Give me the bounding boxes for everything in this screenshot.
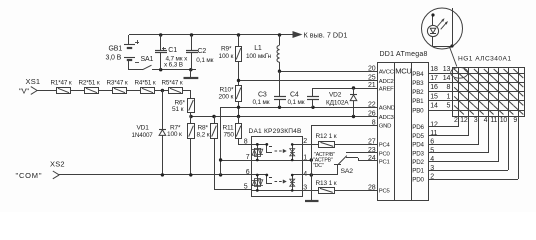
svg-text:PC1: PC1 [379, 159, 390, 165]
svg-text:26: 26 [368, 111, 376, 118]
label C1 [164, 47, 188, 68]
label DA1 pin 5 [244, 184, 248, 191]
wire ground drop [311, 125, 313, 201]
node rail-C1 junction [159, 33, 162, 36]
svg-text:20: 20 [368, 65, 376, 72]
svg-text:C3: C3 [258, 92, 267, 99]
resistor R8 [211, 116, 253, 190]
svg-text:200 к: 200 к [219, 94, 234, 101]
node C3-AGND [278, 106, 281, 109]
wire PB2 to HG1 row pin 8 [429, 84, 453, 91]
svg-text:9: 9 [513, 117, 517, 124]
svg-text:5: 5 [447, 102, 451, 109]
label HG1 column pin 10 [500, 117, 508, 124]
resistor R4 [141, 88, 155, 94]
svg-text:8: 8 [447, 84, 451, 91]
svg-text:GND: GND [379, 124, 391, 130]
svg-text:12: 12 [430, 121, 438, 128]
svg-text:27: 27 [368, 139, 376, 146]
svg-text:14: 14 [443, 75, 451, 82]
label L1 [246, 45, 272, 60]
resistor R5 [169, 88, 183, 94]
svg-text:К выв. 7 DD1: К выв. 7 DD1 [304, 31, 348, 40]
svg-text:7: 7 [246, 154, 250, 161]
label DA1 pin 6 [246, 169, 250, 176]
resistor R11 [236, 116, 253, 145]
node R10-AGND [237, 106, 240, 109]
label DD1 pin 6 PD4 [412, 139, 434, 149]
label DD1 pin 4 PD2 [412, 156, 434, 166]
svg-text:R10*: R10* [220, 87, 234, 94]
resistor R3 [113, 88, 127, 94]
label DD1 pin 21 AREF [368, 82, 394, 92]
svg-text:PD1: PD1 [412, 168, 424, 175]
node pin1 tie [310, 158, 313, 161]
node R9-R10-ADC2 [237, 79, 240, 82]
label R4 [135, 79, 156, 86]
label HG1 column pin 4 [484, 117, 488, 124]
label DD1 pin 16 PB2 [412, 84, 438, 96]
svg-text:DA1 КР293КП4В: DA1 КР293КП4В [249, 128, 303, 135]
label R9 [219, 46, 234, 61]
arrow to pin 7 DD1 [293, 31, 347, 40]
label DD1 pin 5 PD3 [412, 147, 434, 157]
label DD1 pin 28 PC5 [368, 185, 390, 195]
wire ADC3 pin26 [191, 116, 378, 118]
label R2 [79, 79, 100, 86]
label DD1 [380, 51, 428, 58]
opto channel 1 (pins 8-7/2-1) [252, 143, 302, 161]
node VD1-COM [161, 173, 164, 176]
svg-text:2: 2 [454, 117, 458, 124]
node C4-AGND [311, 106, 314, 109]
label DD1 pin 27 PC4 [368, 139, 390, 149]
label XS2 [16, 160, 65, 181]
svg-text:R2*51 к: R2*51 к [79, 79, 100, 86]
resistor R7 [188, 116, 195, 175]
node VD2-AREF [352, 86, 355, 89]
wire PB0 to HG1 row pin 5 [429, 102, 453, 110]
label R6 [172, 99, 186, 113]
svg-text:PD5: PD5 [412, 133, 424, 140]
svg-text:PC5: PC5 [379, 189, 391, 195]
label HG1 [458, 56, 512, 63]
wire HG1 column 4 to PD3 [429, 116, 489, 153]
label DD1 pin 24 PC1 [368, 155, 390, 165]
svg-text:PB0: PB0 [412, 107, 424, 114]
capacitor C4 [307, 88, 319, 107]
label DD1 pin 8 GND [372, 120, 391, 130]
label DD1 pin 22 AGND [368, 102, 395, 112]
resistor R2 [85, 88, 99, 94]
svg-text:0,1 мк: 0,1 мк [288, 99, 305, 106]
wire HG1 column 3 to PD4 [429, 116, 479, 145]
svg-text:SA1: SA1 [141, 56, 154, 63]
svg-text:SA2: SA2 [341, 168, 354, 175]
label GB1 [106, 45, 123, 61]
svg-text:GB1: GB1 [109, 45, 123, 52]
label R3 [107, 79, 128, 86]
wire AGND pin22 [221, 107, 378, 109]
svg-text:3,0 В: 3,0 В [106, 55, 122, 62]
svg-text:12: 12 [460, 117, 468, 124]
label XS1 [19, 77, 40, 96]
svg-text:22: 22 [368, 102, 376, 109]
svg-text:R13 1 к: R13 1 к [316, 180, 337, 187]
node R8-ADC3 [212, 115, 215, 118]
connector XS2 [53, 171, 59, 179]
svg-text:10: 10 [500, 117, 508, 124]
label R8 [197, 125, 210, 139]
label DA1 pin 4 [303, 171, 307, 178]
svg-text:8,2 к: 8,2 к [197, 131, 210, 138]
label R7 [167, 124, 182, 138]
label HG1 column pin 12 [460, 117, 468, 124]
svg-text:8: 8 [372, 120, 376, 127]
label DA1 pin 7 [246, 154, 250, 161]
resistor R1 [57, 88, 71, 94]
node rail-C2 junction [190, 33, 193, 36]
svg-text:4: 4 [430, 156, 434, 163]
node rail-L1 junction [278, 33, 281, 36]
svg-text:PD6: PD6 [412, 124, 424, 131]
label DD1 pin 20 AVCC [368, 65, 395, 75]
wire HG1 column 2 to PD5 [429, 116, 469, 136]
svg-text:PB3: PB3 [412, 80, 424, 87]
svg-text:14: 14 [430, 102, 438, 109]
display HG1 outline [453, 68, 525, 117]
label SA1 [141, 56, 154, 63]
label MCU [395, 67, 411, 76]
svg-text:25: 25 [368, 75, 376, 82]
svg-text:C4: C4 [290, 92, 299, 99]
node AGND-COM [219, 173, 222, 176]
svg-text:100 мкГн: 100 мкГн [246, 53, 272, 60]
diode VD1 [159, 90, 166, 175]
svg-text:"COM": "COM" [16, 171, 43, 180]
svg-text:24: 24 [368, 155, 376, 162]
label DD1 pin 18 PB4 [412, 66, 438, 78]
connector XS1 [31, 87, 37, 95]
label DD1 pin 17 PB3 [412, 75, 438, 87]
label C2 [196, 48, 213, 64]
label R12 [316, 133, 337, 140]
svg-text:3: 3 [474, 117, 478, 124]
wire DA1 pin4 to SA2 [302, 174, 338, 176]
svg-text:R12 1 к: R12 1 к [316, 133, 337, 140]
capacitor C1 [155, 35, 167, 70]
wire DA1 pin7 [221, 160, 252, 162]
label DA1 pin 3 [303, 185, 307, 192]
svg-text:PB2: PB2 [412, 89, 424, 96]
svg-text:AVCC: AVCC [379, 70, 395, 76]
resistor R9 [236, 35, 242, 80]
label SA2 [341, 168, 354, 175]
wire PB3 to HG1 row pin 14 [429, 75, 453, 83]
wire DA1 pin1 [302, 160, 311, 162]
node VD2-ADC3 [352, 115, 355, 118]
svg-text:28: 28 [368, 185, 376, 192]
label DA1 pin 8 [244, 139, 248, 146]
wire PB1 to HG1 row pin 1 [429, 93, 453, 100]
wire DA1 pin2 to R12 [302, 144, 319, 146]
svg-text:1N4007: 1N4007 [132, 132, 154, 139]
svg-text:PD4: PD4 [412, 142, 424, 149]
label DA1 pin 2 [303, 138, 307, 145]
svg-text:17: 17 [430, 75, 438, 82]
svg-text:18: 18 [430, 66, 438, 73]
svg-text:VD1: VD1 [137, 125, 150, 132]
svg-text:0,1 мк: 0,1 мк [253, 99, 270, 106]
display HG1 grid lines [453, 68, 524, 116]
svg-text:750: 750 [224, 131, 235, 138]
wire AREF pin21 [313, 88, 378, 90]
svg-text:11: 11 [490, 117, 497, 124]
diode VD2 [350, 88, 357, 116]
wire +3V top rail [129, 34, 293, 36]
label DD1 pin 2 PD0 [412, 174, 434, 184]
label DD1 pin 26 ADC3 [368, 111, 394, 121]
label DD1 pin 23 PC0 [368, 147, 390, 157]
svg-text:5: 5 [430, 147, 434, 154]
svg-text:C2: C2 [198, 48, 207, 55]
ground symbol DA1 [305, 200, 319, 202]
label VD2 [326, 92, 349, 107]
resistor R6 [188, 98, 195, 116]
svg-text:R3*47 к: R3*47 к [107, 79, 128, 86]
svg-text:1: 1 [447, 93, 451, 100]
resistor R10 [236, 80, 242, 116]
svg-text:ADC3: ADC3 [379, 115, 395, 121]
node R7-COM [189, 173, 192, 176]
wire R13 to PC5 pin28 [334, 190, 378, 192]
wire PB4 to HG1 row pin 13 [429, 66, 453, 74]
ground symbol under C2 [184, 70, 199, 78]
svg-text:PB1: PB1 [412, 98, 424, 105]
wire HG1 column 5 to PD2 [429, 116, 499, 162]
label C3 [253, 92, 270, 107]
svg-text:PC4: PC4 [379, 143, 391, 149]
svg-text:PD3: PD3 [412, 150, 424, 157]
svg-text:х 6,3 В: х 6,3 В [164, 61, 183, 68]
wire gnd C1-C2 [161, 69, 196, 71]
wire GND pin8 [311, 125, 378, 127]
label HG1 column pin 9 [513, 117, 517, 124]
label HG1 column pin 3 [474, 117, 478, 124]
svg-text:"V": "V" [19, 87, 29, 96]
switch SA1 [129, 65, 161, 70]
wire HG1 column 7 to PD0 [429, 116, 519, 180]
svg-text:4: 4 [484, 117, 488, 124]
wire HG1 column 1 to PD6 [429, 116, 459, 127]
battery GB1 [124, 35, 139, 70]
svg-text:R5*47 к: R5*47 к [162, 79, 183, 86]
svg-text:8: 8 [244, 139, 248, 146]
svg-text:MCU: MCU [395, 67, 411, 76]
svg-text:PC0: PC0 [379, 151, 391, 157]
svg-text:100 к: 100 к [219, 53, 234, 60]
svg-text:R4*51 к: R4*51 к [135, 79, 156, 86]
svg-text:XS2: XS2 [50, 160, 65, 169]
node VD1-chain [161, 89, 164, 92]
label DA1 pin 1 [303, 155, 307, 162]
label DA1 [249, 128, 303, 135]
svg-text:C1: C1 [168, 47, 177, 54]
MCU DD1 box [378, 63, 429, 202]
svg-text:15: 15 [430, 93, 438, 100]
capacitor C3 [274, 71, 286, 107]
label DD1 pin 25 ADC2 [368, 75, 394, 85]
wire HG1 column 6 to PD1 [429, 116, 509, 171]
svg-text:PB4: PB4 [412, 71, 424, 78]
resistor R13 [319, 188, 335, 194]
label DD1 pin 14 PB0 [412, 102, 438, 114]
svg-text:VD2: VD2 [329, 92, 342, 99]
wire V chain [37, 90, 191, 98]
wire COM rail [59, 174, 252, 176]
svg-text:R1*47 к: R1*47 к [51, 79, 72, 86]
label DD1 pin 3 PD1 [412, 165, 434, 175]
wire AVCC pin20 [280, 71, 378, 73]
svg-text:L1: L1 [254, 45, 262, 52]
svg-text:AREF: AREF [379, 86, 394, 92]
svg-text:100 к: 100 к [167, 131, 182, 138]
label HG1 column pin 2 [454, 117, 458, 124]
svg-text:XS1: XS1 [26, 77, 41, 86]
label R5 [162, 79, 183, 86]
node pin7-AGND [219, 158, 222, 161]
svg-text:16: 16 [430, 84, 438, 91]
inductor L1 [277, 35, 280, 71]
node L1-C3-AVCC [278, 70, 281, 73]
label R13 [316, 180, 337, 187]
wire ADC2 pin25 [238, 80, 378, 82]
capacitor C2 [186, 35, 198, 70]
node R6-R7-ADC3 [189, 115, 192, 118]
svg-text:21: 21 [368, 82, 376, 89]
svg-text:51 к: 51 к [172, 106, 184, 113]
label HG1 column pin 11 [490, 117, 497, 124]
label DD1 pin 12 PD6 [412, 121, 438, 131]
opto channel 2 (pins 6-5/4-3) [252, 174, 302, 192]
opto relay DA1 box [252, 137, 303, 197]
label R1 [51, 79, 72, 86]
resistor R12 [319, 142, 335, 148]
node R11-ADC3 [237, 115, 240, 118]
svg-text:0,1 мк: 0,1 мк [196, 57, 213, 64]
svg-text:AGND: AGND [379, 106, 395, 112]
svg-text:ADC2: ADC2 [379, 79, 394, 85]
label R11 [223, 125, 235, 139]
svg-text:5: 5 [244, 184, 248, 191]
label C4 [288, 92, 305, 107]
callout circle LED detail [422, 8, 463, 67]
switch SA2 [334, 153, 378, 176]
label R10 [219, 87, 234, 101]
node C1 bottom [159, 68, 162, 71]
node C2 bottom [189, 68, 192, 71]
label mode ASTR [313, 152, 335, 169]
svg-text:23: 23 [368, 147, 376, 154]
display HG1 LED diagonals [454, 69, 523, 115]
svg-text:R9*: R9* [221, 46, 232, 53]
svg-text:HG1 АЛС340А1: HG1 АЛС340А1 [458, 56, 512, 63]
node pin4 tie [310, 173, 313, 176]
node rail-R9 junction [237, 33, 240, 36]
wire AGND drop [220, 107, 222, 175]
wire DA1 pin3 to R13 [302, 190, 318, 192]
svg-text:PD0: PD0 [412, 176, 424, 183]
wire R12 to PC4 pin27 [335, 144, 378, 146]
svg-text:13: 13 [443, 66, 451, 73]
label VD1 [132, 125, 154, 139]
svg-text:PD2: PD2 [412, 159, 424, 166]
svg-text:6: 6 [246, 169, 250, 176]
svg-text:"DC": "DC" [313, 163, 324, 169]
svg-text:DD1 ATmega8: DD1 ATmega8 [380, 51, 428, 58]
label DD1 pin 15 PB1 [412, 93, 438, 105]
display HG1 highlighted cell ellipse [451, 67, 468, 78]
label DD1 pin 11 PD5 [412, 130, 437, 140]
svg-text:КД102А: КД102А [326, 99, 349, 106]
